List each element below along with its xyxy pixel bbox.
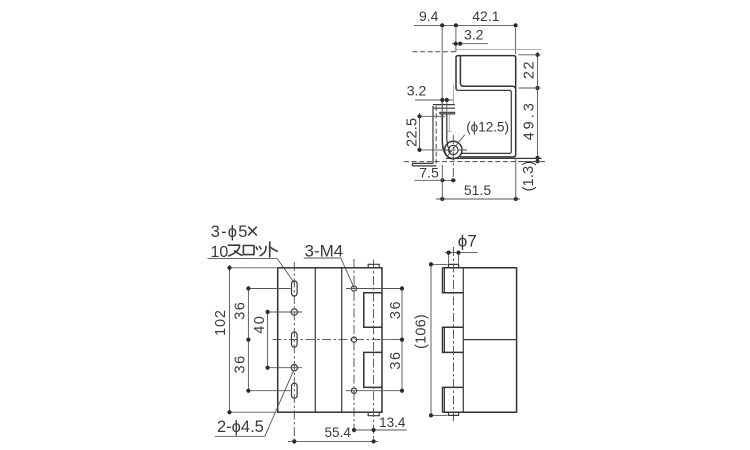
(106) dim (430, 262, 432, 418)
knuckle rectangles (mating wing seen in front) (364, 293, 382, 328)
door leaf tab (440, 112, 455, 114)
pins (449, 264, 459, 267)
body outline (443, 268, 517, 412)
pin centerline (453, 247, 455, 422)
svg-text:36: 36 (233, 354, 249, 373)
svg-text:36: 36 (233, 301, 249, 320)
svg-text:22: 22 (522, 60, 538, 79)
dimension 7.5 (414, 179, 456, 181)
svg-text:(ϕ12.5): (ϕ12.5) (466, 120, 509, 135)
phi4.5 holes (291, 309, 297, 315)
extension lines to right 36 dims (346, 288, 404, 290)
channel inner wall (460, 56, 515, 90)
knuckle outer circle (445, 141, 462, 158)
centerlines of knuckle (442, 149, 468, 151)
svg-text:36: 36 (388, 300, 404, 319)
svg-text:42.1: 42.1 (472, 8, 499, 24)
svg-text:49.3: 49.3 (522, 100, 538, 140)
svg-text:ϕ7: ϕ7 (458, 232, 477, 251)
dimension 22 / 49.3 (right) (537, 52, 539, 160)
dimension 3.2 (left) (415, 99, 454, 101)
plate outline (278, 268, 382, 412)
bottom dims 55.4 (288, 440, 378, 442)
small vertical link (453, 85, 455, 105)
svg-text:102: 102 (213, 309, 229, 336)
left dims: 36/36 (247, 286, 249, 393)
svg-text:3.2: 3.2 (464, 26, 484, 42)
katakana "slot" (drawn paths) (228, 242, 277, 257)
svg-text:51.5: 51.5 (464, 182, 491, 198)
M4 holes (351, 286, 356, 291)
pin head tabs (368, 264, 379, 268)
centerlines (293, 262, 295, 444)
svg-text:×: × (246, 219, 259, 244)
svg-text:7.5: 7.5 (419, 164, 439, 180)
svg-text:22.5: 22.5 (405, 118, 421, 147)
dimension (1.3) (521, 161, 537, 192)
channel inner contour (thin) (456, 88, 511, 153)
dimension 51.5 (436, 198, 520, 200)
dimension 22.5 (419, 113, 421, 152)
pin circle (449, 145, 458, 154)
svg-text:3.2: 3.2 (407, 83, 427, 99)
bottom dims 13.4 (352, 429, 407, 431)
svg-text:(1.3): (1.3) (521, 161, 537, 192)
left dims: 40 (267, 310, 269, 371)
hidden panel line dashed (413, 51, 456, 53)
svg-text:36: 36 (388, 350, 404, 369)
dimension 9.4 / 42.1 line (414, 24, 516, 26)
svg-text:2-ϕ4.5: 2-ϕ4.5 (217, 418, 264, 436)
knuckles (443, 268, 464, 293)
bottom lines: part bottom / panel solid / dashed (446, 157, 542, 159)
svg-text:3-ϕ5: 3-ϕ5 (211, 223, 249, 241)
svg-text:13.4: 13.4 (379, 415, 406, 430)
svg-text:(106): (106) (413, 314, 429, 349)
left dims: 102 (229, 265, 231, 415)
frame wing channel outline (456, 56, 516, 157)
svg-text:55.4: 55.4 (325, 425, 352, 440)
svg-text:40: 40 (252, 315, 268, 334)
phantom door panel line (light) (455, 49, 541, 51)
dimension 3.2 (upper) (452, 43, 488, 45)
frame keeper plate (left, thin piece) (432, 106, 434, 163)
slots (292, 281, 298, 296)
door leaf (442, 114, 453, 159)
svg-text:9.4: 9.4 (419, 8, 439, 24)
extension lines for 9.4/42.1 (441, 28, 443, 111)
